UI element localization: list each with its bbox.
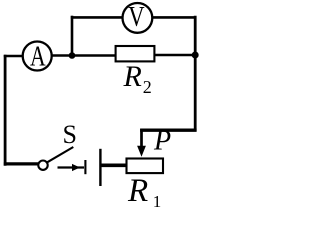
ammeter A bbox=[23, 39, 52, 72]
svg-text:P: P bbox=[153, 126, 171, 157]
node junction left (dot) bbox=[69, 52, 76, 59]
svg-text:R: R bbox=[123, 60, 142, 93]
battery negative plate (short) bbox=[84, 160, 86, 174]
svg-text:A: A bbox=[30, 39, 46, 72]
wire ammeter left lead bbox=[4, 55, 23, 58]
wire battery to rheostat R1 bbox=[101, 163, 127, 167]
wire top-right horizontal (voltmeter to right rail) bbox=[153, 16, 197, 19]
wire ammeter to resistor R2 bbox=[52, 54, 117, 57]
wire left vertical (top node down to junction) bbox=[71, 16, 74, 56]
rheostat R1 body bbox=[127, 159, 164, 174]
wire top-left horizontal (node to voltmeter) bbox=[71, 16, 123, 19]
wire switch fixed lead with arrow bbox=[58, 166, 85, 168]
wire left vertical rail bbox=[4, 55, 7, 166]
switch S pivot bbox=[38, 161, 47, 170]
resistor R2 body bbox=[116, 46, 155, 61]
wire bottom-right horizontal (right rail to slider) bbox=[140, 128, 197, 131]
slider P arrow bbox=[137, 129, 146, 157]
wire R2 right lead bbox=[155, 54, 196, 57]
svg-text:2: 2 bbox=[143, 77, 152, 97]
svg-text:R: R bbox=[127, 173, 148, 209]
voltmeter V bbox=[122, 0, 152, 33]
wire right vertical rail bbox=[194, 16, 197, 132]
wire bottom-left horizontal to switch bbox=[4, 162, 39, 165]
battery positive plate (long) bbox=[99, 149, 101, 186]
label R1 bbox=[127, 173, 161, 211]
svg-text:1: 1 bbox=[153, 192, 162, 209]
label R2 bbox=[123, 60, 152, 97]
svg-text:S: S bbox=[63, 120, 77, 149]
svg-text:V: V bbox=[128, 0, 145, 32]
node junction right (dot) bbox=[192, 52, 199, 59]
switch S blade bbox=[47, 147, 73, 162]
